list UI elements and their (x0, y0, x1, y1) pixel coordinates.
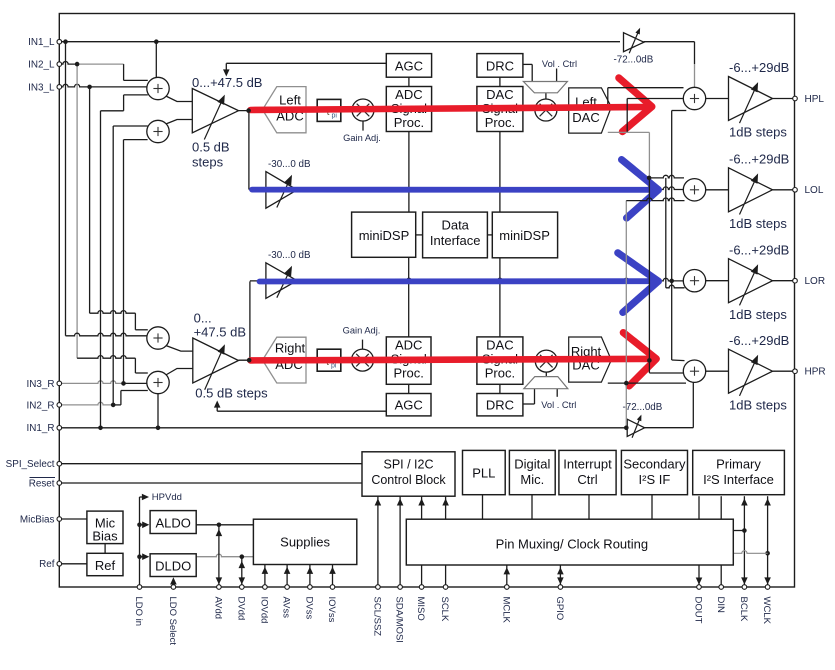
svg-text:DAC: DAC (572, 110, 599, 125)
svg-text:Vol . Ctrl: Vol . Ctrl (542, 59, 577, 69)
svg-text:MCLK: MCLK (500, 597, 511, 624)
svg-text:Supplies: Supplies (280, 535, 330, 550)
svg-text:Control Block: Control Block (371, 473, 446, 487)
svg-text:DAC: DAC (486, 338, 513, 353)
svg-text:SCLK: SCLK (439, 597, 450, 622)
svg-text:PLL: PLL (472, 466, 495, 481)
svg-text:1dB steps: 1dB steps (729, 397, 787, 412)
svg-text:IOVdd: IOVdd (259, 597, 270, 624)
svg-text:miniDSP: miniDSP (359, 228, 410, 243)
svg-text:I²S IF: I²S IF (639, 472, 671, 487)
svg-text:Reset: Reset (29, 478, 55, 489)
svg-text:AGC: AGC (395, 59, 423, 74)
svg-text:Proc.: Proc. (485, 115, 515, 130)
svg-text:0.5 dB steps: 0.5 dB steps (195, 386, 268, 401)
svg-text:Ctrl: Ctrl (577, 472, 597, 487)
svg-text:Bias: Bias (92, 529, 118, 544)
svg-text:Mic.: Mic. (520, 472, 544, 487)
svg-text:IN1_L: IN1_L (28, 37, 55, 48)
svg-text:steps: steps (192, 155, 224, 170)
svg-text:BCLK: BCLK (738, 597, 749, 622)
svg-text:AVdd: AVdd (213, 597, 224, 620)
svg-text:pi: pi (332, 113, 338, 120)
svg-text:IN1_R: IN1_R (27, 423, 55, 434)
svg-text:DAC: DAC (486, 87, 513, 102)
svg-text:MicBias: MicBias (20, 514, 55, 525)
svg-text:DVss: DVss (304, 597, 315, 620)
svg-text:Primary: Primary (716, 457, 761, 472)
svg-text:Gain Adj.: Gain Adj. (343, 325, 381, 335)
svg-text:MISO: MISO (415, 597, 426, 621)
svg-text:SPI_Select: SPI_Select (6, 459, 55, 470)
svg-text:LOR: LOR (805, 276, 826, 287)
svg-text:Digital: Digital (514, 457, 550, 472)
svg-text:-6...+29dB: -6...+29dB (729, 152, 789, 167)
svg-text:I²S Interface: I²S Interface (703, 472, 774, 487)
svg-text:IN3_R: IN3_R (27, 379, 55, 390)
svg-text:Data: Data (441, 218, 469, 233)
svg-text:Interface: Interface (430, 233, 481, 248)
svg-text:LOL: LOL (805, 185, 824, 196)
svg-text:DLDO: DLDO (155, 559, 191, 574)
svg-text:Proc.: Proc. (485, 366, 515, 381)
svg-text:GPIO: GPIO (554, 597, 565, 621)
svg-text:pi: pi (331, 363, 337, 370)
svg-text:Secondary: Secondary (623, 457, 686, 472)
svg-text:1dB steps: 1dB steps (729, 307, 787, 322)
svg-text:AVss: AVss (281, 597, 292, 619)
svg-text:1dB steps: 1dB steps (729, 216, 787, 231)
svg-text:ADC: ADC (395, 338, 422, 353)
svg-text:0...+47.5 dB: 0...+47.5 dB (192, 75, 262, 90)
svg-text:Proc.: Proc. (394, 366, 424, 381)
svg-text:-6...+29dB: -6...+29dB (729, 333, 789, 348)
svg-text:HPR: HPR (805, 367, 826, 378)
svg-text:Proc.: Proc. (394, 115, 424, 130)
svg-text:AGC: AGC (395, 398, 423, 413)
svg-text:HPVdd: HPVdd (152, 492, 182, 503)
svg-text:-72...0dB: -72...0dB (623, 402, 663, 413)
svg-text:IN2_R: IN2_R (27, 400, 55, 411)
svg-text:IN2_L: IN2_L (28, 60, 55, 71)
svg-text:0.5 dB: 0.5 dB (192, 140, 230, 155)
svg-text:DOUT: DOUT (693, 597, 704, 624)
svg-text:HPL: HPL (805, 94, 825, 105)
svg-text:Interrupt: Interrupt (563, 457, 612, 472)
svg-text:-72...0dB: -72...0dB (614, 54, 654, 65)
svg-text:LDO in: LDO in (133, 597, 144, 627)
svg-text:ALDO: ALDO (155, 516, 190, 531)
svg-text:ADC: ADC (395, 87, 422, 102)
svg-text:miniDSP: miniDSP (499, 228, 550, 243)
svg-text:IOVss: IOVss (326, 597, 337, 623)
svg-text:SCL/SSZ: SCL/SSZ (372, 597, 383, 637)
svg-text:LDO Select: LDO Select (167, 597, 178, 646)
svg-text:IN3_L: IN3_L (28, 82, 55, 93)
svg-text:SDA/MOSI: SDA/MOSI (394, 597, 405, 643)
svg-text:SPI / I2C: SPI / I2C (383, 458, 433, 472)
svg-text:-6...+29dB: -6...+29dB (729, 60, 789, 75)
svg-text:0...: 0... (194, 311, 212, 326)
svg-text:Ref: Ref (95, 558, 116, 573)
svg-text:DIN: DIN (715, 597, 726, 614)
svg-text:Ref: Ref (39, 559, 55, 570)
svg-text:-30...0 dB: -30...0 dB (268, 159, 311, 170)
svg-text:DVdd: DVdd (235, 597, 246, 621)
svg-text:-30...0 dB: -30...0 dB (268, 250, 311, 261)
svg-text:Pin Muxing/ Clock Routing: Pin Muxing/ Clock Routing (496, 537, 648, 552)
svg-text:DRC: DRC (486, 398, 514, 413)
svg-text:Left: Left (279, 93, 301, 108)
svg-text:Gain Adj.: Gain Adj. (343, 133, 381, 143)
svg-text:WCLK: WCLK (761, 597, 772, 625)
svg-text:-6...+29dB: -6...+29dB (729, 242, 789, 257)
svg-text:DRC: DRC (486, 59, 514, 74)
svg-text:+47.5 dB: +47.5 dB (194, 324, 246, 339)
svg-text:Vol . Ctrl: Vol . Ctrl (541, 400, 576, 410)
svg-text:Right: Right (275, 341, 306, 356)
svg-text:1dB steps: 1dB steps (729, 125, 787, 140)
